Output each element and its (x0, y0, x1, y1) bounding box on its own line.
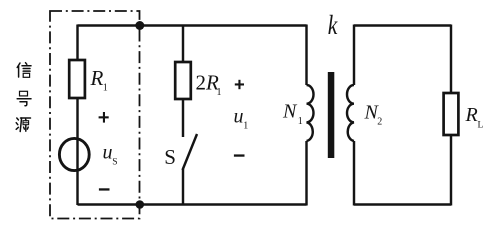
wire left branch upper (76, 25, 78, 61)
wire switch to bottom (182, 169, 184, 205)
wire secondary left lower (353, 141, 355, 206)
resistor RL (444, 93, 459, 135)
svg-text:k: k (328, 11, 339, 41)
polarity minus of u1 (234, 154, 245, 156)
wire left branch lower (76, 98, 78, 205)
wire bottom primary loop (78, 203, 307, 205)
wire primary right lower (305, 141, 307, 206)
wire top primary loop (78, 24, 307, 26)
svg-text:u: u (103, 141, 113, 163)
svg-text:R: R (90, 66, 104, 90)
resistor R1 (69, 60, 85, 98)
polarity minus of uS (99, 188, 110, 190)
svg-text:1: 1 (298, 116, 303, 127)
wire secondary left upper (353, 25, 355, 86)
inductor winding N1 primary (307, 85, 314, 141)
wire 2R1 to switch (182, 99, 184, 137)
wire 2R1 branch upper (182, 26, 184, 63)
svg-text:S: S (112, 157, 117, 167)
label 信号源 (16, 63, 31, 132)
svg-text:1: 1 (217, 87, 222, 98)
inductor winding N2 secondary (347, 85, 354, 141)
transformer core bar (328, 72, 335, 158)
svg-text:L: L (478, 121, 484, 131)
wire secondary bottom (354, 203, 451, 205)
voltage source uS circle (59, 138, 89, 170)
svg-text:1: 1 (243, 121, 248, 132)
wire secondary right lower (450, 135, 452, 206)
switch S blade (183, 134, 198, 170)
junction node bottom (136, 200, 145, 209)
wire secondary right upper (450, 25, 452, 94)
resistor 2R1 (175, 62, 191, 99)
svg-text:2: 2 (377, 117, 382, 128)
svg-text:R: R (465, 104, 478, 126)
svg-text:S: S (164, 145, 176, 169)
wire secondary top (354, 24, 451, 26)
wire primary right upper (305, 25, 307, 86)
junction node top (135, 21, 144, 30)
polarity plus of uS (99, 112, 109, 123)
signal source enclosure dash-dot box (50, 11, 140, 219)
svg-text:u: u (234, 105, 244, 127)
polarity plus of u1 (235, 80, 244, 89)
svg-text:N: N (282, 101, 298, 123)
svg-text:1: 1 (103, 83, 108, 94)
svg-text:2R: 2R (196, 70, 220, 94)
